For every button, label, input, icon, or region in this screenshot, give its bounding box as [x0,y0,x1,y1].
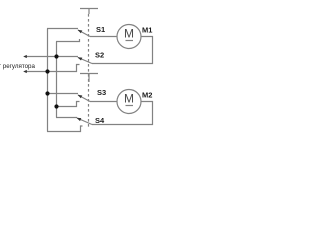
svg-text:S1: S1 [96,25,105,34]
bus A (left vertical) [47,29,49,132]
wire: S3 output to motor M2 [90,101,117,103]
blade tip arrow S1 [78,30,83,34]
wire: S4 output loop to M2 right terminal [92,102,153,125]
mechanical linkage (dashed) [88,14,90,128]
wire: bus A to S3 upper contact [47,93,78,95]
blade tip arrow S3 [78,95,83,99]
wire: bus A to S1 upper contact [47,28,78,30]
wire: input 2 from regulator to S2 lower contact (jog up) [26,65,80,72]
svg-text:M1: M1 [142,26,152,35]
svg-text:от регулятора: от регулятора [0,63,35,70]
svg-text:M: M [124,92,134,106]
wire: bus B to S3 lower contact (jog up) [56,102,80,107]
motor M2 underline [126,105,134,107]
wire: S2 output loop to M1 right terminal [92,37,153,64]
switch S2 blade [78,58,92,64]
switch S4 blade [77,118,92,125]
input arrow 2 [23,70,27,73]
wire: input 1 from regulator to S2 upper contact [26,56,78,58]
svg-text:M: M [124,27,134,41]
svg-text:M2: M2 [142,91,152,100]
junction dot bus A / input 2 [45,69,49,73]
svg-text:S4: S4 [95,116,105,125]
bus B (second vertical) [56,42,58,118]
svg-text:S3: S3 [97,88,106,97]
junction dot bus B / input 1 [54,54,58,58]
actuator bar T1 [80,9,98,15]
switch S1 blade [78,30,90,37]
blade tip arrow S2 [77,57,82,60]
input arrow 1 [23,55,27,58]
junction dot bus A / S3 feed [45,91,49,95]
wire: bus A bottom to S4 lower contact (jog up) [47,126,83,132]
actuator bar T2 [80,74,98,83]
svg-text:S2: S2 [95,51,104,60]
motor M1 underline [126,40,134,42]
wire: S1 output to motor M1 [90,36,117,38]
motor M2 circle [117,90,141,114]
motor M1 circle [117,25,141,49]
wire: bus B to S1 lower contact [56,39,80,42]
junction dot bus B / S3 lower feed [54,104,58,108]
blade tip arrow S4 [76,118,81,121]
switch S3 blade [78,95,90,102]
wire: bus B to S4 upper contact [56,117,77,119]
